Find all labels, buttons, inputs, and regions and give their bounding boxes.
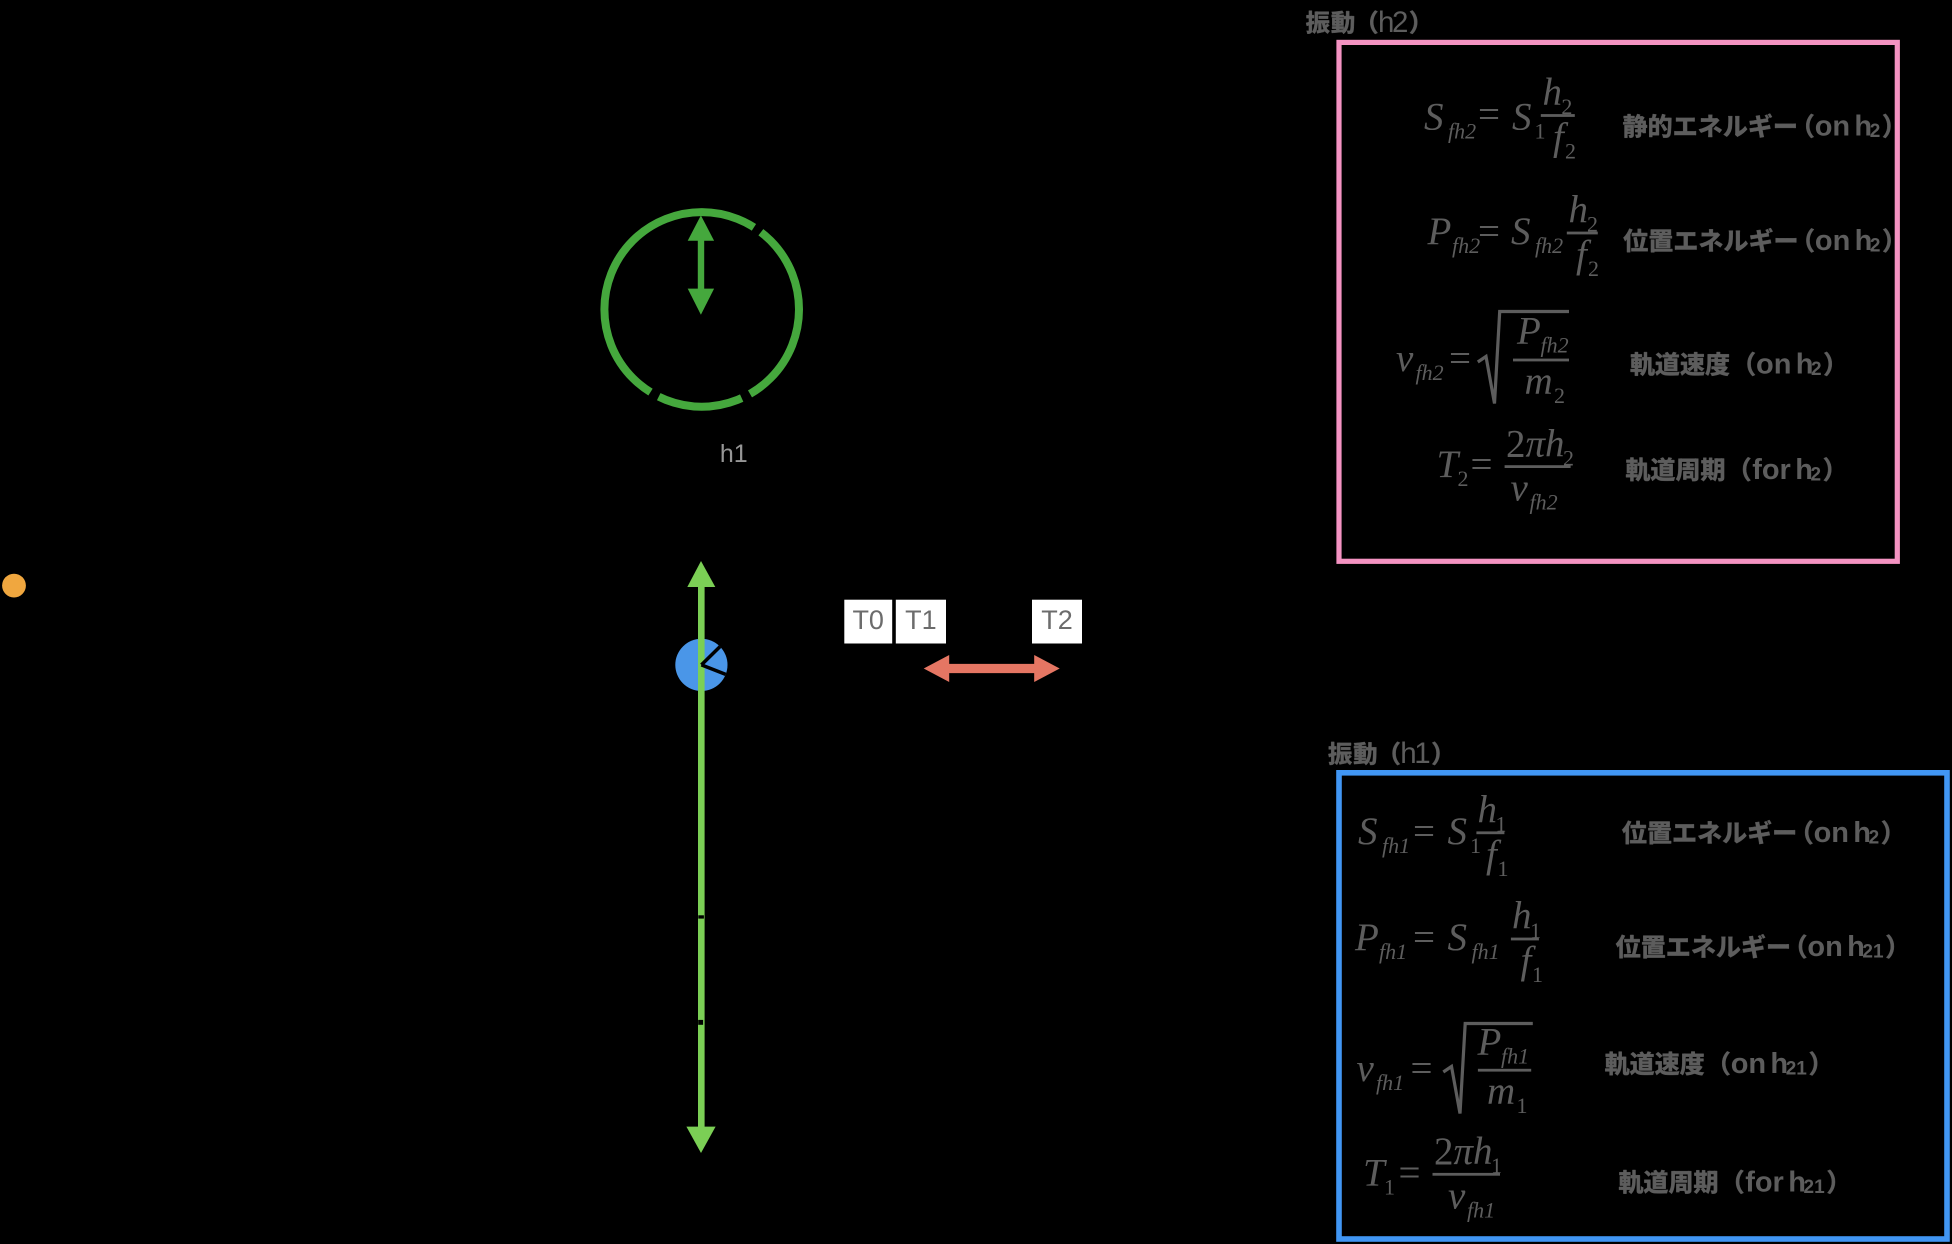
svg-text:2: 2 xyxy=(1811,464,1822,485)
svg-text:2: 2 xyxy=(1870,121,1881,142)
svg-text:h: h xyxy=(1569,189,1589,232)
svg-text:v: v xyxy=(1448,1174,1466,1217)
svg-text:m: m xyxy=(1525,360,1553,403)
svg-text:fh2: fh2 xyxy=(1535,233,1563,258)
svg-text:h: h xyxy=(1473,1130,1493,1173)
svg-text:S: S xyxy=(1424,96,1444,139)
svg-text:=: = xyxy=(1471,443,1493,486)
svg-text:S: S xyxy=(1448,810,1468,853)
svg-text:S: S xyxy=(1512,96,1532,139)
svg-text:v: v xyxy=(1396,337,1414,380)
svg-text:2: 2 xyxy=(1588,256,1599,281)
svg-text:fh1: fh1 xyxy=(1376,1070,1404,1095)
svg-text:fh2: fh2 xyxy=(1541,333,1569,358)
svg-text:=: = xyxy=(1449,337,1471,380)
svg-text:π: π xyxy=(1454,1130,1475,1173)
svg-text:h1: h1 xyxy=(720,440,748,468)
svg-text:2: 2 xyxy=(1458,466,1469,491)
svg-text:fh2: fh2 xyxy=(1452,233,1480,258)
svg-text:on: on xyxy=(1815,111,1850,143)
svg-text:21: 21 xyxy=(1804,1177,1826,1198)
svg-text:2: 2 xyxy=(1392,6,1408,39)
svg-text:fh1: fh1 xyxy=(1472,939,1500,964)
svg-text:1: 1 xyxy=(1470,833,1481,858)
svg-text:2: 2 xyxy=(1869,828,1880,849)
svg-text:2: 2 xyxy=(1554,383,1565,408)
svg-text:on: on xyxy=(1756,349,1791,381)
svg-text:v: v xyxy=(1357,1047,1375,1090)
svg-text:fh1: fh1 xyxy=(1382,833,1410,858)
svg-text:P: P xyxy=(1427,210,1452,253)
svg-text:on: on xyxy=(1815,225,1850,257)
svg-text:=: = xyxy=(1478,210,1500,253)
svg-text:T1: T1 xyxy=(905,605,937,635)
svg-text:on: on xyxy=(1814,817,1849,849)
svg-text:2: 2 xyxy=(1434,1130,1454,1173)
svg-text:2: 2 xyxy=(1565,139,1576,164)
svg-text:1: 1 xyxy=(1535,119,1546,144)
svg-text:=: = xyxy=(1478,93,1500,136)
svg-text:=: = xyxy=(1413,916,1435,959)
svg-text:for: for xyxy=(1745,1166,1784,1198)
svg-text:=: = xyxy=(1413,810,1435,853)
svg-text:1: 1 xyxy=(1414,737,1430,770)
svg-text:1: 1 xyxy=(1517,1093,1528,1118)
svg-text:π: π xyxy=(1526,422,1547,465)
svg-text:h: h xyxy=(1545,422,1565,465)
svg-text:S: S xyxy=(1358,810,1378,853)
svg-text:S: S xyxy=(1448,916,1468,959)
svg-text:on: on xyxy=(1807,931,1842,963)
svg-text:fh2: fh2 xyxy=(1416,360,1444,385)
svg-text:T2: T2 xyxy=(1041,605,1073,635)
svg-text:on: on xyxy=(1731,1048,1766,1080)
svg-text:1: 1 xyxy=(1532,962,1543,987)
svg-text:T0: T0 xyxy=(852,605,884,635)
svg-text:S: S xyxy=(1511,210,1531,253)
svg-text:fh1: fh1 xyxy=(1501,1044,1529,1069)
svg-text:for: for xyxy=(1752,454,1791,486)
svg-text:m: m xyxy=(1487,1070,1515,1113)
svg-text:P: P xyxy=(1477,1021,1502,1064)
svg-text:21: 21 xyxy=(1862,942,1884,963)
svg-text:2: 2 xyxy=(1870,236,1881,257)
svg-text:P: P xyxy=(1354,916,1379,959)
svg-text:1: 1 xyxy=(1498,856,1509,881)
svg-text:=: = xyxy=(1399,1151,1421,1194)
svg-text:1: 1 xyxy=(1384,1174,1395,1199)
svg-text:fh1: fh1 xyxy=(1467,1197,1495,1222)
svg-text:P: P xyxy=(1516,310,1541,353)
svg-text:21: 21 xyxy=(1786,1059,1808,1080)
svg-text:fh1: fh1 xyxy=(1379,939,1407,964)
svg-text:fh2: fh2 xyxy=(1448,119,1476,144)
svg-text:v: v xyxy=(1511,467,1529,510)
svg-text:h: h xyxy=(1478,789,1498,832)
svg-text:=: = xyxy=(1411,1047,1433,1090)
svg-text:2: 2 xyxy=(1506,422,1526,465)
svg-text:h: h xyxy=(1512,895,1532,938)
svg-text:fh2: fh2 xyxy=(1530,490,1558,515)
svg-text:h: h xyxy=(1543,71,1563,114)
svg-text:2: 2 xyxy=(1811,359,1822,380)
